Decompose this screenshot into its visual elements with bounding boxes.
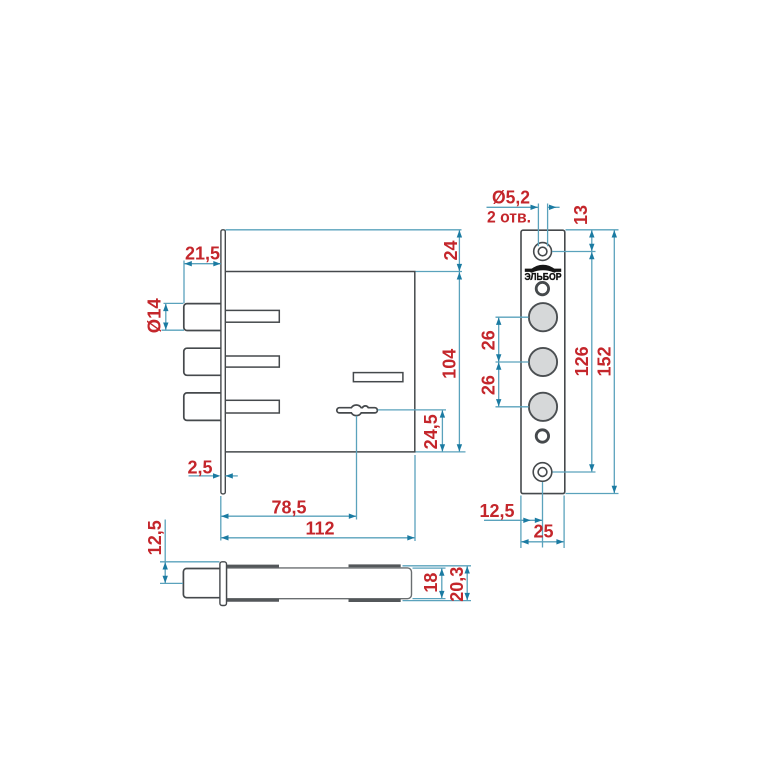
dim line 20,3 xyxy=(466,566,468,601)
ext line plate left down xyxy=(520,496,522,549)
ext line faceplate bottom down xyxy=(220,496,222,541)
dim line 152 xyxy=(613,230,615,494)
svg-text:152: 152 xyxy=(595,346,615,376)
arrows 12,5 xyxy=(523,518,530,523)
ext line bottom hole center xyxy=(553,471,596,473)
ELBOR logo wings xyxy=(525,269,561,272)
dim line 13/126 vertical xyxy=(591,230,593,472)
svg-text:126: 126 xyxy=(572,346,592,376)
ext line body top to right xyxy=(416,271,463,273)
ext lines Ø14 xyxy=(162,303,185,330)
dim line 24,5 xyxy=(441,410,443,452)
dim line 12,5 side xyxy=(164,520,166,584)
big bolt hole 3 xyxy=(529,393,557,421)
big bolt hole 1 xyxy=(529,303,557,331)
ext line left for 21,5 xyxy=(183,261,185,304)
svg-text:13: 13 xyxy=(571,205,591,225)
bottom screw hole inner xyxy=(538,468,547,477)
svg-text:12,5: 12,5 xyxy=(479,501,514,521)
small thick ring lower xyxy=(536,430,548,442)
ext line plate bottom right xyxy=(566,493,619,495)
arrows 20,3 xyxy=(465,566,470,573)
arrows 24 xyxy=(457,230,462,237)
svg-text:104: 104 xyxy=(439,349,459,379)
top screw hole inner xyxy=(538,247,547,256)
svg-text:21,5: 21,5 xyxy=(185,244,220,264)
arrows 104 xyxy=(457,272,462,279)
keyhole (double-bit key profile) xyxy=(337,405,378,416)
ext line keyhole center down xyxy=(356,416,358,520)
side cover plate bottom right xyxy=(349,599,401,602)
side cover plate bottom left xyxy=(227,599,280,602)
dim line 26/26 vertical xyxy=(498,317,500,407)
small thick ring upper xyxy=(536,282,548,294)
faceplate (side view vertical bar) xyxy=(220,562,227,606)
side cover plate top left xyxy=(227,565,280,568)
ext line plate right down xyxy=(563,496,565,549)
bolt tail bar 2 (inside body) xyxy=(225,356,279,367)
svg-text:12,5: 12,5 xyxy=(145,520,165,555)
faceplate (front view, vertical strip) xyxy=(221,230,225,494)
svg-text:2,5: 2,5 xyxy=(187,458,212,478)
ext line plate top right xyxy=(566,229,619,231)
ext lines 18 right xyxy=(413,568,446,599)
arrows 78,5 xyxy=(221,514,228,519)
ext line top of faceplate to right xyxy=(226,229,462,231)
arrows 112 xyxy=(221,535,228,540)
svg-text:26: 26 xyxy=(479,375,499,395)
ext lines big holes centers left xyxy=(496,317,529,407)
dim line 78,5 xyxy=(221,515,357,517)
ext line top hole center xyxy=(552,251,596,253)
ext line side plate top left xyxy=(160,561,220,563)
arrows Ø5,2 xyxy=(531,205,538,210)
svg-text:24: 24 xyxy=(441,240,461,260)
svg-text:18: 18 xyxy=(421,573,441,593)
side body outline xyxy=(227,568,412,599)
ext line side bolt center left xyxy=(160,582,183,584)
arrows Ø14 xyxy=(163,304,168,311)
dim line 112 xyxy=(221,537,415,539)
arrows 26 lower xyxy=(496,362,501,369)
arrows 13 xyxy=(589,230,594,237)
svg-text:112: 112 xyxy=(305,519,334,539)
leader lines hole Ø5,2 xyxy=(538,204,547,247)
side cover plate top right xyxy=(349,564,401,567)
svg-text:Ø14: Ø14 xyxy=(145,298,165,333)
big bolt hole 2 xyxy=(529,348,557,376)
dim 2,5 left segment xyxy=(189,475,215,477)
ext lines 20,3 right xyxy=(403,566,472,601)
svg-text:25: 25 xyxy=(533,522,553,542)
dim line 12,5 xyxy=(484,519,543,521)
dim line 24 and 104 vertical xyxy=(458,230,460,452)
bottom screw hole outer xyxy=(533,463,552,482)
bolt tail bar 3 (inside body) xyxy=(225,400,279,413)
ext line body right down xyxy=(414,455,416,541)
svg-text:78,5: 78,5 xyxy=(271,498,306,518)
ext line keyhole center to right xyxy=(378,409,446,411)
arrows 152 xyxy=(612,230,617,237)
lock body outline xyxy=(225,272,414,452)
arrows 126 xyxy=(589,252,594,259)
svg-text:26: 26 xyxy=(479,330,499,350)
slot rectangle in body xyxy=(353,373,403,382)
arrows 24,5 xyxy=(440,410,445,417)
bolt (side view) xyxy=(183,569,222,598)
arrows 21,5 xyxy=(184,261,191,266)
svg-text:Ø5,2: Ø5,2 xyxy=(492,188,530,208)
svg-text:24,5: 24,5 xyxy=(421,414,441,449)
arrows 2,5 xyxy=(213,473,220,478)
bolt 2 (front view) xyxy=(184,348,222,375)
dim 2,5 right segment xyxy=(225,475,237,477)
arrows 25 xyxy=(521,539,528,544)
bolt 3 (front view) xyxy=(184,393,222,421)
ext line bottom hole center down xyxy=(542,482,544,548)
arrows 18 xyxy=(439,568,444,575)
svg-text:2 отв.: 2 отв. xyxy=(487,208,531,227)
faceplate plate outline xyxy=(521,230,565,493)
dim line Ø5,2 xyxy=(487,206,560,208)
ext line body bottom to right xyxy=(416,451,466,453)
dim line Ø14 xyxy=(165,303,167,330)
dim line 21,5 xyxy=(184,263,221,265)
top screw hole outer xyxy=(534,243,552,261)
dim line 18 xyxy=(441,568,443,599)
dim line 25 xyxy=(521,541,564,543)
arrows 26 upper xyxy=(496,318,501,325)
ELBOR logo arc xyxy=(532,267,555,271)
bolt tail bar 1 (inside body) xyxy=(225,310,279,322)
arrows 12,5 side xyxy=(163,562,168,569)
bolt 1 (front view) xyxy=(184,304,222,331)
svg-text:20,3: 20,3 xyxy=(447,567,467,602)
